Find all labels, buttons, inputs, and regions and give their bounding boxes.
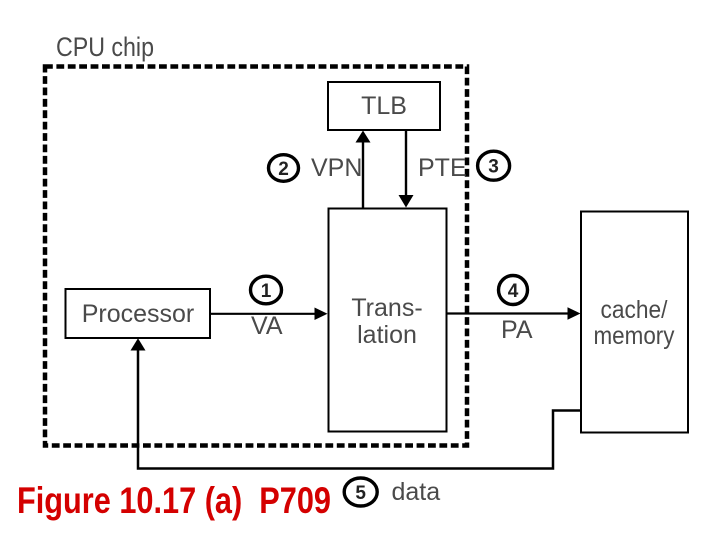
svg-text:data: data xyxy=(392,478,441,506)
svg-text:TLB: TLB xyxy=(361,92,407,120)
svg-text:PA: PA xyxy=(501,316,533,344)
svg-text:lation: lation xyxy=(357,321,417,349)
svg-text:3: 3 xyxy=(488,157,499,178)
svg-text:VPN: VPN xyxy=(311,154,362,182)
svg-text:Trans-: Trans- xyxy=(351,294,422,322)
svg-text:PTE: PTE xyxy=(418,154,467,182)
svg-text:2: 2 xyxy=(278,159,289,180)
svg-text:Figure 10.17 (a) P709: Figure 10.17 (a) P709 xyxy=(17,480,331,521)
svg-text:Processor: Processor xyxy=(82,300,195,328)
svg-text:cache/: cache/ xyxy=(601,296,668,324)
svg-text:VA: VA xyxy=(251,312,283,340)
svg-text:4: 4 xyxy=(508,281,519,302)
svg-text:5: 5 xyxy=(355,483,366,504)
svg-text:memory: memory xyxy=(594,322,675,350)
svg-text:CPU chip: CPU chip xyxy=(56,32,154,62)
svg-text:1: 1 xyxy=(261,281,272,302)
